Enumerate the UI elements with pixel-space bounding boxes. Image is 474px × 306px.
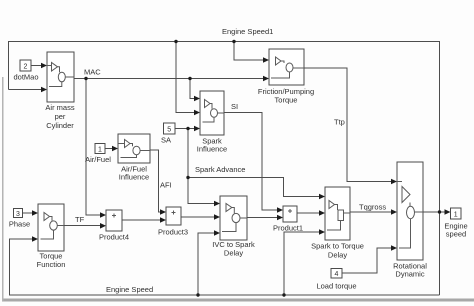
svg-text:Tqgross: Tqgross — [359, 203, 386, 212]
svg-text:Product4: Product4 — [99, 233, 129, 242]
svg-text:Air/Fuel: Air/Fuel — [85, 155, 111, 164]
svg-text:AFI: AFI — [160, 181, 172, 190]
svg-text:MAC: MAC — [84, 68, 101, 77]
svg-text:Engine Speed1: Engine Speed1 — [222, 27, 273, 36]
svg-text:Phase: Phase — [9, 220, 30, 229]
svg-text:Product1: Product1 — [273, 224, 303, 233]
svg-text:Product3: Product3 — [158, 228, 188, 237]
svg-text:4: 4 — [335, 271, 339, 278]
svg-text:5: 5 — [167, 126, 171, 133]
svg-text:dotMao: dotMao — [13, 73, 38, 82]
svg-text:Engine Speed: Engine Speed — [106, 285, 153, 294]
svg-text:2: 2 — [24, 63, 28, 70]
svg-text:Dynamic: Dynamic — [395, 270, 424, 279]
svg-text:Ttp: Ttp — [334, 118, 345, 127]
svg-text:Spark Advance: Spark Advance — [195, 165, 245, 174]
svg-text:1: 1 — [454, 211, 458, 218]
svg-text:Torque: Torque — [275, 96, 298, 105]
svg-text:Air mass: Air mass — [45, 103, 74, 112]
svg-text:Load torque: Load torque — [316, 282, 356, 291]
svg-text:speed: speed — [446, 230, 466, 239]
svg-text:Cylinder: Cylinder — [46, 121, 74, 130]
svg-text:Influence: Influence — [197, 145, 227, 154]
svg-text:Function: Function — [37, 260, 66, 269]
svg-text:3: 3 — [16, 211, 20, 218]
svg-text:Spark to Torque: Spark to Torque — [311, 242, 364, 251]
svg-text:Delay: Delay — [328, 251, 347, 260]
svg-text:Delay: Delay — [224, 249, 243, 258]
svg-text:TF: TF — [75, 215, 85, 224]
svg-text:per: per — [55, 112, 66, 121]
svg-text:SA: SA — [161, 136, 171, 145]
svg-text:SI: SI — [231, 102, 238, 111]
svg-text:1: 1 — [98, 146, 102, 153]
svg-text:Influence: Influence — [119, 173, 149, 182]
